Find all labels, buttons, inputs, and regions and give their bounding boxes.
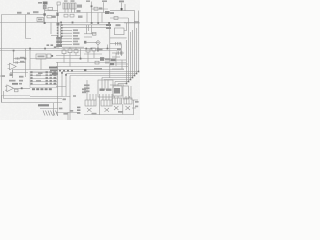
bus horizontal y83 [118,83,127,85]
label top x86 [86,0,90,2]
bus corner dots [138,71,140,73]
wire Q1 emitter down [12,70,14,73]
rectifier BR2 hatched box [70,3,76,9]
wire x121.3 drop [120,44,122,56]
label under block A [92,113,97,115]
driver block B body [101,100,112,106]
wire x12.6 link [12,70,14,78]
diode D1 marks [77,5,82,8]
wire x131 drop [130,86,132,100]
wire left border vertical [1,15,3,103]
capacitor C7 [62,50,66,54]
component box x100 [100,57,104,61]
wire T1 drop [44,4,46,22]
IC U2 outline [30,71,57,87]
label x105 [105,58,110,60]
wire y42.4 [84,41,99,43]
label dark row3 [12,83,18,85]
U1 pin row 3 [61,29,78,31]
fuse F1 on drop [43,5,46,9]
wire x30 drop [29,49,31,70]
resistor R6 [95,61,99,64]
row2 end component [106,27,111,29]
bus horizontal y75 [70,75,135,77]
U1 pin row 8 [62,43,80,45]
IC U1 spine [58,23,61,49]
transistor pair B [105,108,110,112]
wire x87 short [86,80,88,94]
wire x99.5 mid drop [99,94,101,115]
label TP2 [102,0,107,2]
U8 input stubs [5,86,7,90]
wire x68 drop lower [67,112,69,120]
resistor R2 on y33.8 [92,32,96,35]
U5 dark fill marks [114,88,120,94]
oscillator Y1 box [36,54,46,59]
wire mid bus y70 [12,69,124,71]
wire vertical x88.7 [88,25,90,31]
component box x105 [105,11,110,14]
wire x116 drop [115,53,117,66]
diode D4 marks [77,10,81,12]
label T1 [38,2,42,4]
wire mid bus y58 [30,58,116,60]
label above BR1 [64,0,68,1]
component y64 blob [110,63,114,65]
label K1 [33,11,39,13]
U1 pin row 2 [61,27,106,29]
wire y72.5 [10,72,28,74]
wire vertical x98 [97,13,99,23]
bus horizontal y73 [66,73,137,75]
label near x71 [70,110,73,112]
wire mid bus y66 [56,66,128,68]
driver block D body [124,98,132,104]
U1 pin row 6 [62,38,80,40]
U1 top blob [57,23,60,26]
wire y96.6 [30,96,71,98]
label bottom mid [63,98,66,100]
capacitor C1 [48,8,53,11]
wire bottom-left corner outer [2,95,63,103]
bus horizontal y81 [115,81,129,83]
label right edge lower2 [135,106,138,108]
IC U4 box [98,80,113,97]
wire diamond drop [97,45,99,49]
label C6 [20,61,25,63]
op-amp U8 triangle [7,85,14,92]
wire vertical x125 [124,4,126,11]
bus horizontal y71 [62,71,139,73]
label row2 [9,80,16,82]
transistor pair D [126,106,131,110]
IC U5 box [113,86,122,96]
diamond test point D3 [96,40,100,44]
wire vertical branch x25 [26,15,32,39]
label above line A mid [27,12,30,14]
wire vertical x91.5 [91,2,93,23]
label R5 [20,57,25,59]
rectifier BR1 hatched box [63,3,69,9]
IC U6 box [123,86,129,99]
wire y114.5 bottom rail [84,114,134,116]
C6 ticks [16,61,18,63]
U2 label row [32,88,52,90]
wire x107.5 stub [107,45,109,49]
wire x41 drop [40,59,42,70]
label x59 [59,108,63,110]
relay K2 box [115,28,125,35]
wire y60 [112,59,126,61]
component pins right column [77,107,80,114]
node dark y70 left [84,69,86,71]
bus vertical 3 [134,11,136,76]
capacitor C5 [114,17,118,20]
node dot x25 y58 [24,58,26,60]
bus horizontal y79 [104,79,131,81]
U1 pin junction dots [61,24,63,26]
wire vertical x87 [86,13,88,23]
diode D5 marks [78,16,83,18]
driver block A verticals [87,94,96,100]
labels right of U3 [97,48,103,50]
IC U3 boxes top [86,49,90,52]
bus left corners descend [62,72,70,121]
row1 end component [106,24,111,26]
wire y69 stub [112,68,124,70]
capacitor C4 [70,14,74,17]
U1 body block [56,37,62,47]
Y1 label inside [38,56,45,58]
wire BR pins down [65,9,75,13]
label 470 [117,48,122,50]
test point TP2 lead [103,2,105,12]
wire y108.5 [40,108,58,110]
wire x13.7 drop [13,51,15,64]
wire x57.5 lower [57,62,59,116]
node dots on bus B [91,22,93,24]
label gnd left [1,75,6,77]
node dots on bus B mid [60,22,73,24]
label TP1 [119,1,124,3]
transistor pair A [87,108,92,112]
U2 pin row y81 [30,80,57,82]
capacitor C2 [47,16,52,18]
label above line A left [17,12,22,14]
resistor R3 ticks [110,42,122,45]
bus vertical 2 [136,28,138,74]
wire y54 [84,53,102,55]
wire y86.5 stub [56,87,66,97]
wire y37 [84,36,92,38]
U4 internal pins [102,80,108,90]
wire bus B full width [0,22,139,24]
wire corner into U4 [102,78,118,87]
wire long pair upper [0,48,121,50]
node dots y88 [21,87,23,89]
wire y57 stub [112,56,120,58]
capacitor C6 stub [14,62,26,64]
wire vertical x102 [101,13,103,23]
bus vertical 7 [126,40,128,84]
label above BR2 [71,0,75,2]
wire y95.4 faint [2,95,30,97]
driver block A body [85,100,96,106]
relay K1 box [37,18,44,22]
U1 pin row 9 [62,46,84,48]
component on y42.4 left [84,41,86,44]
U1 pin row 7 [62,41,78,43]
wire stubs cluster [64,47,76,55]
junction dots on top band [59,70,73,76]
transformer T1 top box [43,2,48,5]
wire x25.3 mid drop [25,49,27,78]
wire y33.8 [84,33,96,35]
node dot x91.5 [91,5,93,7]
component right edge [134,21,139,23]
wire y37.9 [110,37,127,39]
wire long pair lower [0,50,121,52]
wire y100 right [132,99,138,101]
U1 pin row 4 [61,32,80,34]
U1 spine junction dots [57,24,59,37]
wire x88 drop [87,52,89,62]
wire rail y12.5 [56,12,110,14]
wire vertical x51 [50,23,52,35]
wire cluster drops [64,49,81,67]
label right-bottom of corners [82,88,86,93]
wire mid bus y62 [56,62,126,64]
wire x53.5 drop [53,103,55,116]
wire x122 corner [121,60,123,69]
driver block B verticals [103,94,112,100]
U4 internal marks [100,89,105,91]
resistor R12 [15,89,19,92]
node TP1 dot [121,8,123,10]
component y60 blob [111,59,116,61]
resistor R1 [94,7,98,10]
wire y108 right [132,107,136,109]
wire y9 branch [92,8,109,10]
wire y85 right [110,84,124,86]
wire top-right y10.7 [110,10,135,12]
resistor R4 ticks [112,51,124,54]
wire x57.5 drop [57,5,59,23]
wire bottom-left corner inner [4,91,63,99]
node junction on bus B [44,22,46,24]
U1 pin row 5 [61,35,78,37]
wire vertical x86.3 [85,25,87,34]
varistor RV1 [47,54,51,58]
wire K2 right link [124,23,127,31]
label right edge lower [135,101,139,103]
capacitor C3 [64,14,68,17]
op-amp U7 triangle [10,63,17,70]
node dots right of RV1 [51,55,53,57]
wire x122.8 lower drop [122,104,124,115]
bus vertical 6 [128,18,130,82]
component on x57.5 [56,13,58,16]
wire x94 drop [93,51,95,58]
bus vertical 5 [130,32,132,80]
dark cluster x49-58 [49,67,58,69]
diode D2 marks [99,7,102,9]
capacitor C8 [68,49,72,53]
wire top-right y18 [110,17,128,19]
wire branch y10.5 [45,10,59,12]
U2 pin row y78 [30,77,57,79]
wire y64 [110,63,128,65]
U2 pin row y84 [30,83,57,85]
U7 input stubs [8,65,10,69]
K1 text inside [38,19,42,21]
wire top bus A [2,14,45,16]
resistor R5 stub [14,58,26,60]
marks bottom-right of relay area [47,44,57,48]
label above R3 [116,24,121,26]
label R11 [19,80,23,82]
connector hatch block [43,111,58,116]
U2 pin row y75 [30,74,57,76]
label below y112 [63,113,67,115]
wire y55.5 [56,55,80,57]
U1 pin row 1 [61,24,106,26]
bus horizontal y77 [102,77,133,79]
bus vertical 4 [132,30,134,78]
label y73 [38,72,43,74]
label Q1 [10,73,13,76]
label under block C [118,111,123,113]
capacitor C9 [74,50,78,53]
U2 pin row y72 [30,72,57,74]
transistor pair C [114,106,119,110]
text grid left of U4 [84,84,90,86]
wire stub y35.5 [51,35,58,37]
node dot x80 [80,58,82,60]
driver block C body [113,98,122,104]
R5 ticks [16,57,19,59]
wire x109.8 vertical [109,23,111,78]
node junction A [43,13,45,15]
label R10 [19,76,24,78]
label x105 row2 [105,62,109,64]
wire y23 right stub [124,22,140,24]
label right of x70 [73,95,76,97]
label x110 [110,12,114,14]
connector J1 small box [57,2,60,5]
component blob right [52,16,56,18]
wire y112.5 [56,112,80,114]
node dots on pair [13,48,109,52]
bus vertical 1 [138,11,140,72]
wire Q2 collector out [13,87,30,89]
wire vertical x91.4 [90,25,92,34]
wire x133.5 drop [133,100,135,115]
wire C D feed verticals [115,96,130,99]
test point TP1 lead [121,3,123,11]
text blob bottom-center [38,104,49,106]
label above y70 right [94,68,102,70]
